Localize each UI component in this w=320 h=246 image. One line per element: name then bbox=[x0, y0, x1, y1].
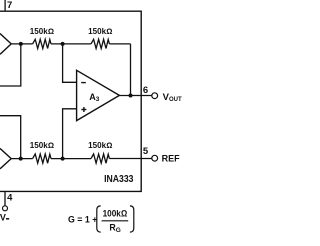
svg-text:7: 7 bbox=[7, 0, 12, 11]
svg-text:6: 6 bbox=[143, 85, 148, 96]
svg-text:G = 1 +: G = 1 + bbox=[68, 215, 97, 225]
node junction dot A1 output bbox=[19, 42, 23, 46]
svg-text:INA333: INA333 bbox=[104, 174, 134, 185]
svg-text:5: 5 bbox=[143, 146, 149, 157]
svg-text:150kΩ: 150kΩ bbox=[88, 27, 112, 36]
pin 6 terminal circle bbox=[152, 93, 158, 99]
node junction dot top mid bbox=[61, 42, 65, 46]
wire R4 to REF pin bbox=[109, 158, 151, 160]
svg-text:REF: REF bbox=[162, 154, 181, 164]
fraction bar bbox=[102, 220, 129, 222]
node junction dot A2 output bbox=[19, 157, 23, 161]
op-amp A3 triangle bbox=[77, 70, 120, 120]
wire feedback down to A3 output bbox=[130, 44, 132, 96]
svg-text:4: 4 bbox=[7, 192, 13, 203]
pin 5 terminal circle bbox=[152, 155, 158, 161]
node junction dot bottom mid bbox=[61, 157, 65, 161]
resistor R1 150k (top-left) bbox=[33, 39, 51, 48]
svg-text:100kΩ: 100kΩ bbox=[103, 208, 128, 218]
op-amp A2 (partial, tip) bbox=[0, 148, 11, 168]
wire A3 output bbox=[119, 95, 151, 97]
op-amp A1 (partial, tip) bbox=[0, 34, 11, 55]
resistor R4 150k (bottom-right) bbox=[91, 154, 109, 163]
pin 4 terminal circle bbox=[3, 206, 8, 211]
wire R2 to feedback corner bbox=[109, 43, 130, 45]
right bracket bbox=[130, 206, 134, 232]
resistor R3 150k (bottom-left) bbox=[33, 154, 51, 163]
node junction dot A3 output bbox=[129, 94, 133, 98]
wire A1 output bbox=[11, 43, 32, 45]
resistor R2 150k (top-right) bbox=[91, 39, 109, 48]
A3 plus sign bbox=[81, 109, 86, 111]
wire to A3 inverting input bbox=[63, 44, 77, 82]
A3 minus sign bbox=[81, 82, 86, 84]
label V- dash bbox=[6, 218, 9, 220]
svg-text:150kΩ: 150kΩ bbox=[30, 141, 54, 150]
gain equation G = 1 + (100k/RG) bbox=[68, 206, 134, 234]
wire A2 output bbox=[11, 158, 32, 160]
wire R3 to R4 bbox=[51, 158, 91, 160]
left bracket bbox=[97, 206, 101, 232]
pin 4 wire bbox=[4, 191, 6, 205]
IC boundary box INA333 bbox=[0, 11, 141, 191]
wire A2 feedback bbox=[0, 116, 21, 159]
wire to A3 non-inverting input bbox=[63, 109, 77, 159]
wire R1 to R2 bbox=[51, 43, 91, 45]
svg-text:V: V bbox=[0, 213, 6, 223]
svg-text:150kΩ: 150kΩ bbox=[30, 27, 54, 36]
pin 7 wire bbox=[4, 0, 6, 11]
svg-text:150kΩ: 150kΩ bbox=[88, 141, 112, 150]
wire A1 feedback bbox=[0, 44, 21, 86]
